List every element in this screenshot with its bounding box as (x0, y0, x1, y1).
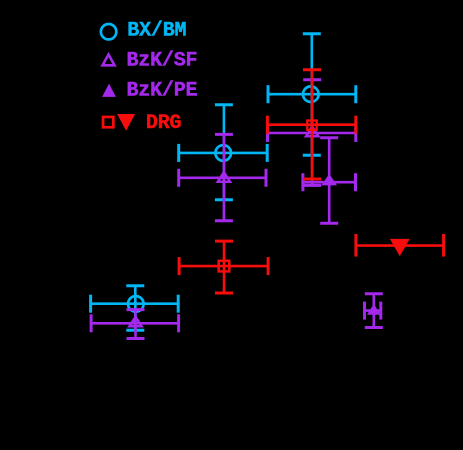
svg-text:BzK/SF: BzK/SF (127, 50, 198, 73)
svg-text:BX/BM: BX/BM (127, 20, 186, 43)
svg-text:DRG: DRG (146, 112, 182, 135)
svg-text:BzK/PE: BzK/PE (127, 80, 198, 103)
